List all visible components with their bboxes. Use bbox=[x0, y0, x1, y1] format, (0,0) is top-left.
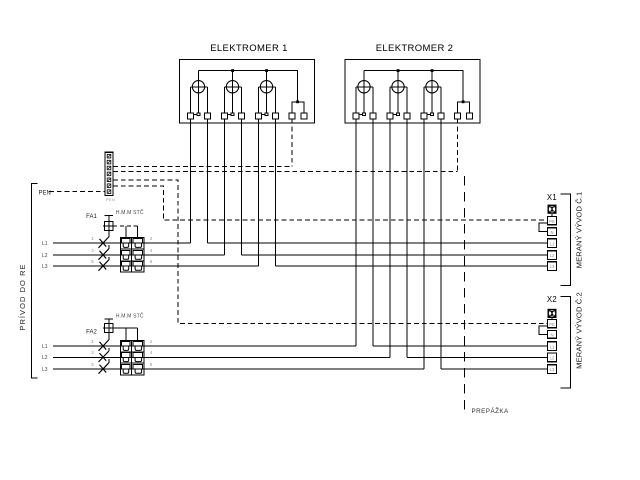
test block FA2 row 3 right contact bbox=[133, 364, 143, 373]
test block FA1 row 2 right contact bbox=[133, 250, 143, 259]
svg-text:PE: PE bbox=[549, 219, 555, 224]
supply bracket (privod do RE) bbox=[32, 184, 38, 379]
wire meter 1 phase 1 in drop bbox=[190, 119, 192, 243]
wire meter 1 phase 3 out drop bbox=[275, 119, 277, 266]
svg-text:PREPÁŽKA: PREPÁŽKA bbox=[472, 406, 510, 415]
breaker FA2 pole 1 contact bbox=[99, 340, 109, 351]
wire L2 breaker FA2 to meter 2 bbox=[53, 356, 390, 358]
svg-text:L1: L1 bbox=[42, 344, 48, 350]
terminal X2:N bbox=[548, 331, 557, 339]
meter 2 phase 1 measuring element bbox=[356, 71, 373, 114]
meter 2 phase 1 voltage tap link bbox=[359, 113, 363, 115]
svg-text:ELEKTROMER 2: ELEKTROMER 2 bbox=[376, 43, 454, 54]
dashed net PEN to meter 1 neutral bbox=[113, 166, 292, 168]
wire meter 1 phase 3 in drop bbox=[258, 119, 260, 266]
meter 2 phase 1 output terminal bbox=[370, 113, 376, 119]
breaker FA1 trip link to test block bbox=[113, 225, 137, 227]
meter 2 phase 2 measuring element bbox=[390, 71, 407, 114]
wire L1 breaker FA2 to meter 2 bbox=[53, 345, 356, 347]
svg-text:MERANÝ VÝVOD Č.2: MERANÝ VÝVOD Č.2 bbox=[575, 292, 584, 369]
meter 1 phase 2 output terminal bbox=[239, 113, 245, 119]
svg-text:PEN: PEN bbox=[106, 197, 115, 202]
wire meter 1 phase 2 out drop bbox=[241, 119, 243, 255]
X2 earth to PE link bbox=[551, 318, 553, 320]
wire L2 meter 2 to X2 bbox=[407, 356, 548, 358]
meter 1 phase 3 measuring element bbox=[259, 71, 276, 114]
wire L1 meter 2 to X2 bbox=[373, 345, 548, 347]
test block FA2 row 2 left contact bbox=[122, 353, 130, 362]
meter 2 phase 3 output terminal bbox=[438, 113, 444, 119]
PEN strip terminal 5 bbox=[107, 178, 111, 182]
breaker FA1 pole 3 contact bbox=[99, 257, 109, 271]
terminal X1:PE bbox=[548, 217, 557, 225]
meter 1 neutral terminal right bbox=[301, 113, 307, 119]
svg-text:L2: L2 bbox=[42, 253, 48, 259]
svg-text:L2: L2 bbox=[550, 253, 555, 258]
meter 1 phase 2 measuring element bbox=[225, 71, 242, 114]
meter 2 phase 1 voltage tap square bbox=[363, 113, 366, 116]
bracket measured feeder 2 bbox=[561, 297, 571, 389]
meter 1 phase 3 voltage tap square bbox=[265, 113, 268, 116]
wire L3 meter 1 to X1 bbox=[276, 265, 548, 267]
meter 2 phase 2 input terminal bbox=[387, 113, 393, 119]
meter 1 phase 3 output terminal bbox=[273, 113, 279, 119]
dashed link PEN label to strip bbox=[49, 191, 105, 193]
wire meter 2 phase 3 in drop bbox=[423, 119, 425, 369]
test block FA2 row 1 right contact bbox=[133, 342, 143, 351]
wire meter 1 phase 1 out drop bbox=[207, 119, 209, 243]
wire L1 meter 1 to X1 bbox=[208, 242, 548, 244]
meter 2 top voltage bus bbox=[364, 71, 463, 102]
bracket measured feeder 1 bbox=[561, 194, 571, 286]
X1 PE to N jumper bbox=[539, 223, 548, 232]
meter 1 phase 1 input terminal bbox=[188, 113, 194, 119]
svg-text:L3: L3 bbox=[42, 367, 48, 373]
breaker FA1 thermal release bbox=[103, 216, 113, 237]
test block FA2 row 2 right contact bbox=[133, 353, 143, 362]
wire L3 breaker FA1 to meter 1 bbox=[53, 265, 259, 267]
meter 2 phase 2 output terminal bbox=[404, 113, 410, 119]
svg-text:H.M.M STČ: H.M.M STČ bbox=[116, 209, 144, 216]
svg-text:PE: PE bbox=[549, 322, 555, 327]
meter 1 phase 1 voltage tap square bbox=[197, 113, 200, 116]
meter 1 neutral bridge bbox=[292, 102, 304, 113]
meter 2 neutral bridge bbox=[458, 102, 470, 113]
meter 1 phase 1 measuring element bbox=[191, 71, 208, 114]
svg-text:PEN: PEN bbox=[39, 191, 51, 197]
svg-text:L3: L3 bbox=[550, 367, 555, 372]
meter 2 PEN wire (dashed) to strip bbox=[457, 119, 459, 172]
svg-text:L3: L3 bbox=[550, 264, 555, 269]
svg-text:N: N bbox=[550, 333, 553, 338]
dashed net PEN to X2 PE bbox=[113, 180, 548, 324]
meter 2 phase 2 voltage tap square bbox=[397, 113, 400, 116]
X2 PE to N jumper bbox=[539, 326, 548, 334]
test block FA2 row 3 left contact bbox=[122, 364, 130, 373]
meter 2 voltage-terminal junction dot bbox=[462, 100, 465, 103]
test block FA1 row 3 left contact bbox=[122, 261, 130, 270]
partition line (prepazka) bbox=[463, 176, 465, 414]
test block FA2 row 1 left contact bbox=[122, 342, 130, 351]
svg-text:FA1: FA1 bbox=[86, 214, 97, 220]
dashed net PEN to X1 PE bbox=[113, 186, 548, 220]
terminal X1:L3 bbox=[548, 262, 557, 271]
X1 earth to PE link bbox=[551, 214, 553, 217]
breaker FA2 thermal release bbox=[103, 319, 113, 340]
meter 1 PEN wire (dashed) to strip bbox=[291, 119, 293, 167]
svg-text:X2: X2 bbox=[547, 295, 557, 304]
meter 2 bus junction dot 1 bbox=[397, 69, 400, 72]
meter 1 phase 3 voltage tap link bbox=[261, 113, 265, 115]
elektromer 1 box bbox=[180, 60, 315, 124]
svg-text:X1: X1 bbox=[547, 193, 557, 202]
wire meter 2 phase 2 in drop bbox=[389, 119, 391, 358]
test block FA1 row 3 right contact bbox=[133, 261, 143, 270]
svg-text:N: N bbox=[550, 230, 553, 235]
meter 2 phase 3 voltage tap link bbox=[427, 113, 431, 115]
breaker FA2 pole 3 contact bbox=[99, 359, 109, 374]
test terminal block FA1 outline bbox=[120, 237, 144, 271]
breaker FA1 pole 1 contact bbox=[99, 237, 109, 248]
PEN strip terminal 6 bbox=[107, 184, 111, 188]
meter 2 neutral terminal right bbox=[467, 113, 473, 119]
meter 1 bus junction dot 1 bbox=[231, 69, 234, 72]
meter 2 phase 3 measuring element bbox=[424, 71, 441, 114]
svg-text:L1: L1 bbox=[550, 344, 555, 349]
PEN strip terminal 1 bbox=[107, 154, 111, 158]
terminal X2:L3 bbox=[548, 365, 557, 374]
wire L2 meter 1 to X1 bbox=[242, 254, 548, 256]
PEN strip terminal 7 bbox=[107, 190, 111, 194]
PEN terminal strip bbox=[105, 152, 113, 195]
svg-text:PRÍVOD DO RE: PRÍVOD DO RE bbox=[18, 263, 27, 330]
svg-text:FA2: FA2 bbox=[86, 330, 97, 336]
svg-text:MERANÝ VÝVOD Č.1: MERANÝ VÝVOD Č.1 bbox=[575, 192, 584, 269]
meter 2 phase 1 input terminal bbox=[353, 113, 359, 119]
test block FA1 row 1 right contact bbox=[133, 239, 143, 248]
meter 1 neutral terminal left bbox=[289, 113, 295, 119]
terminal strip X1 earth terminal bbox=[548, 205, 557, 214]
meter 1 phase 1 output terminal bbox=[205, 113, 211, 119]
wire L2 breaker FA1 to meter 1 bbox=[53, 254, 225, 256]
svg-text:L1: L1 bbox=[550, 241, 555, 246]
wire meter 1 phase 2 in drop bbox=[224, 119, 226, 255]
meter 2 phase 2 voltage tap link bbox=[393, 113, 397, 115]
meter 1 phase 3 input terminal bbox=[256, 113, 262, 119]
breaker FA1 pole 2 contact bbox=[99, 245, 109, 260]
terminal X2:PE bbox=[548, 320, 557, 328]
meter 2 phase 3 input terminal bbox=[421, 113, 427, 119]
svg-text:L2: L2 bbox=[550, 356, 555, 361]
test terminal block FA2 outline bbox=[120, 340, 144, 375]
breaker FA2 pole 2 contact bbox=[99, 348, 109, 362]
meter 2 bus junction dot 2 bbox=[431, 69, 434, 72]
svg-text:L1: L1 bbox=[42, 241, 48, 247]
meter 1 phase 1 voltage tap link bbox=[193, 113, 197, 115]
PEN strip terminal 3 bbox=[107, 166, 111, 170]
wire meter 2 phase 2 out drop bbox=[406, 119, 408, 358]
wire meter 2 phase 3 out drop bbox=[440, 119, 442, 369]
terminal X2:L1 bbox=[548, 342, 557, 351]
meter 2 phase 3 voltage tap square bbox=[431, 113, 434, 116]
wire L1 breaker FA1 to meter 1 bbox=[53, 242, 191, 244]
svg-text:H.M.M STČ: H.M.M STČ bbox=[116, 313, 144, 320]
dashed net PEN to meter 2 neutral bbox=[113, 171, 458, 173]
breaker FA2 trip link to test block bbox=[113, 327, 137, 329]
meter 1 top voltage bus bbox=[199, 71, 298, 102]
wire meter 2 phase 1 in drop bbox=[355, 119, 357, 346]
meter 1 phase 2 voltage tap link bbox=[227, 113, 231, 115]
meter 1 phase 2 voltage tap square bbox=[231, 113, 234, 116]
test block FA1 row 2 left contact bbox=[122, 250, 130, 259]
wire meter 2 phase 1 out drop bbox=[372, 119, 374, 346]
terminal X1:N bbox=[548, 228, 557, 236]
wire L3 breaker FA2 to meter 2 bbox=[53, 368, 424, 370]
wire L3 meter 2 to X2 bbox=[441, 368, 548, 370]
terminal strip X2 earth terminal bbox=[548, 309, 557, 318]
meter 1 voltage-terminal junction dot bbox=[296, 100, 299, 103]
svg-text:L2: L2 bbox=[42, 355, 48, 361]
svg-text:ELEKTROMER 1: ELEKTROMER 1 bbox=[210, 43, 288, 54]
meter 1 phase 2 input terminal bbox=[222, 113, 228, 119]
svg-text:L3: L3 bbox=[42, 264, 48, 270]
PEN strip terminal 4 bbox=[107, 172, 111, 176]
PEN strip terminal 2 bbox=[107, 160, 111, 164]
test block FA1 row 1 left contact bbox=[122, 239, 130, 248]
terminal X2:L2 bbox=[548, 353, 557, 362]
terminal X1:L1 bbox=[548, 239, 557, 248]
terminal X1:L2 bbox=[548, 251, 557, 260]
meter 2 neutral terminal left bbox=[455, 113, 461, 119]
elektromer 2 box bbox=[345, 60, 480, 124]
meter 1 bus junction dot 2 bbox=[265, 69, 268, 72]
